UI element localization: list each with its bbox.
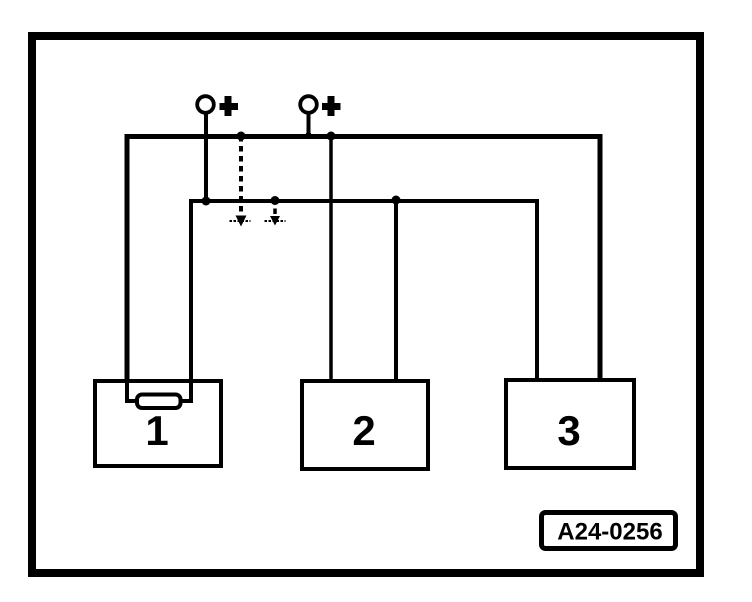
probe terminal P1 (circle) bbox=[197, 96, 214, 201]
svg-text:2: 2 bbox=[352, 407, 375, 454]
wire: leads inside component 1 bbox=[127, 381, 191, 401]
polarity + for probe P1 bbox=[220, 96, 239, 116]
component 1 (box) bbox=[95, 381, 221, 466]
svg-text:3: 3 bbox=[557, 407, 580, 454]
measurement arrow 2 bbox=[265, 209, 286, 226]
measurement arrow 1 bbox=[230, 216, 251, 227]
outer frame (decorative) bbox=[32, 36, 700, 573]
label A24-0256 bbox=[542, 513, 676, 549]
junction on second bus at measurement arrow 2 bbox=[271, 196, 280, 205]
junction probe P1 stem on second bus bbox=[202, 197, 211, 206]
svg-text:A24-0256: A24-0256 bbox=[557, 519, 662, 546]
wire: drop from second bus to component 2 bbox=[394, 201, 398, 380]
wire: top bus from box 1 up, across, down to box 3 bbox=[127, 137, 600, 381]
junction probe P2 stem on top bus bbox=[306, 132, 312, 138]
junction on top bus at drop to component 2 bbox=[327, 132, 336, 141]
component 3 (box) bbox=[506, 380, 634, 468]
wire: second bus from box 1 up, across, down to box 3 bbox=[191, 201, 537, 380]
polarity + for probe P2 bbox=[322, 96, 341, 116]
junction on top bus at dashed lead bbox=[237, 132, 246, 141]
wire: drop from top bus to component 2 bbox=[329, 136, 333, 380]
component 2 (box) bbox=[302, 381, 428, 469]
svg-text:1: 1 bbox=[145, 407, 168, 454]
probe terminal P2 (circle) bbox=[300, 96, 317, 136]
dashed measurement lead bbox=[239, 136, 243, 217]
junction on second bus at drop to component 2 bbox=[392, 196, 401, 205]
fuse element in component 1 bbox=[137, 395, 181, 409]
